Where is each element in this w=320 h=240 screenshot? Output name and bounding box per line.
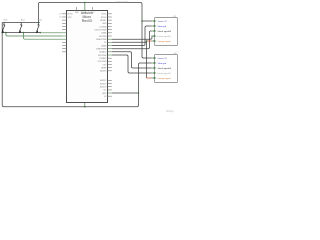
svg-text:GND: GND	[102, 93, 107, 95]
svg-text:D3/SCL/PWM: D3/SCL/PWM	[95, 29, 107, 31]
svg-text:RESET: RESET	[100, 20, 107, 22]
svg-text:1 brown 5V: 1 brown 5V	[157, 57, 168, 60]
svg-text:5 orange signal: 5 orange signal	[157, 40, 172, 43]
svg-text:D6/A7/PWM: D6/A7/PWM	[96, 38, 107, 41]
svg-text:D2/SDA: D2/SDA	[100, 25, 108, 28]
svg-text:GND: GND	[102, 23, 107, 25]
svg-text:D8/A8: D8/A8	[101, 44, 106, 47]
svg-text:4 white signal B: 4 white signal B	[157, 72, 172, 75]
svg-text:A0/D18: A0/D18	[100, 70, 106, 73]
svg-text:AREF: AREF	[101, 67, 107, 70]
svg-text:3 black signal A: 3 black signal A	[157, 67, 172, 70]
svg-text:2 blue gnd: 2 blue gnd	[157, 26, 167, 28]
svg-text:D10/A10: D10/A10	[99, 51, 106, 54]
svg-text:Component1: Component1	[116, 0, 129, 3]
svg-text:D12/A11: D12/A11	[99, 57, 106, 60]
svg-text:4 white signal B: 4 white signal B	[157, 35, 172, 38]
svg-text:15: 15	[59, 14, 61, 16]
svg-text:3 black signal A: 3 black signal A	[157, 30, 172, 33]
svg-text:D9/A9/PWM: D9/A9/PWM	[96, 48, 107, 51]
svg-text:5 orange signal: 5 orange signal	[157, 77, 172, 80]
svg-text:16: 16	[59, 17, 61, 19]
svg-text:RX/D0: RX/D0	[101, 17, 107, 19]
svg-text:Rev03: Rev03	[82, 19, 92, 23]
svg-text:D11/PWM: D11/PWM	[98, 55, 107, 57]
svg-text:fritzing: fritzing	[166, 109, 174, 113]
svg-text:2 blue gnd: 2 blue gnd	[157, 63, 167, 65]
svg-text:A5/D23: A5/D23	[100, 86, 106, 89]
svg-text:A3/D21: A3/D21	[100, 79, 106, 82]
svg-text:MOSI: MOSI	[68, 14, 73, 16]
svg-text:D4/A6: D4/A6	[101, 32, 106, 35]
svg-text:D13/PWM: D13/PWM	[98, 61, 107, 63]
svg-text:D5/PWM: D5/PWM	[99, 36, 107, 38]
svg-text:1 brown 5V: 1 brown 5V	[157, 20, 168, 23]
svg-text:D7: D7	[104, 42, 106, 44]
svg-text:TX/D1: TX/D1	[101, 14, 106, 16]
svg-text:A4/D22: A4/D22	[100, 82, 106, 85]
